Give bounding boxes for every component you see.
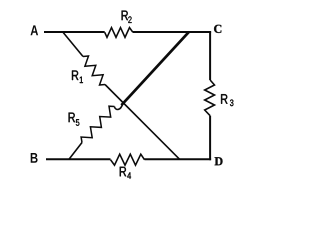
label R2 <box>122 11 132 23</box>
wire R3 down to node D <box>209 116 211 161</box>
resistor R4 <box>111 154 145 165</box>
label R1 <box>72 71 83 84</box>
wire diagonal: node A junction down to R1 <box>63 32 83 56</box>
wire B to R4 (bottom wire left) <box>46 158 111 160</box>
wire R4 to node D <box>145 158 212 160</box>
resistor R5 <box>81 106 114 142</box>
wire diagonal: node B junction up to R5 <box>69 143 82 160</box>
resistor R3 <box>205 80 215 116</box>
node B label <box>31 153 38 163</box>
label R3 <box>221 94 233 106</box>
node C label <box>214 25 221 33</box>
wire hop (crossover loop) <box>114 104 122 110</box>
wire diagonal: R1 down to bottom wire left of D <box>105 85 180 160</box>
node D label <box>215 157 223 165</box>
label R4 <box>120 167 131 179</box>
resistor R2 <box>105 28 133 38</box>
label R5 <box>69 113 80 126</box>
wire A to R2 (top wire left) <box>44 31 105 33</box>
wire thick diagonal from hop up to node C <box>121 32 189 105</box>
wire C down to R3 <box>209 31 211 80</box>
wire R2 to node C <box>133 31 211 33</box>
node A label <box>31 25 39 35</box>
resistor R1 <box>83 56 105 85</box>
